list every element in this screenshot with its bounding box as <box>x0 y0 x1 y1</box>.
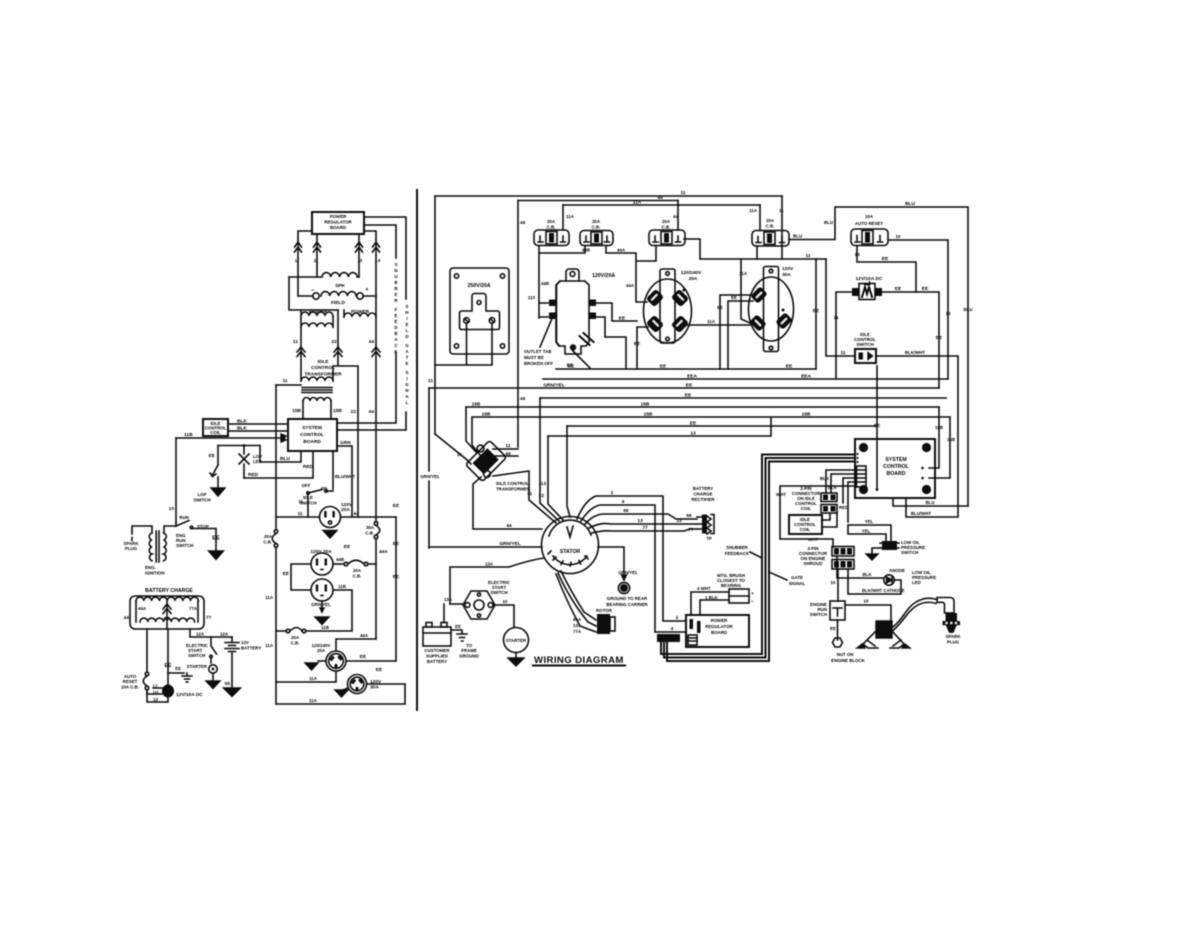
auto reset circuit breaker CB5 <box>121 672 149 690</box>
wire EE into SCB top <box>874 366 881 491</box>
svg-text:RED: RED <box>839 505 848 510</box>
svg-text:SWITCH: SWITCH <box>193 498 210 503</box>
svg-text:C.B.: C.B. <box>291 641 300 646</box>
svg-text:10A C.B.: 10A C.B. <box>121 685 139 690</box>
RIGHT-DIAGRAM <box>420 190 972 666</box>
svg-text:D: D <box>405 334 408 339</box>
wire GRN-YEL ground of J2 <box>311 601 331 625</box>
svg-text:13A: 13A <box>485 562 494 567</box>
svg-text:EE: EE <box>619 316 626 322</box>
svg-text:AUTO RESET: AUTO RESET <box>855 221 884 226</box>
svg-text:GROUND TO REAR: GROUND TO REAR <box>607 596 648 601</box>
svg-text:11B: 11B <box>321 625 329 630</box>
svg-text:66A: 66A <box>573 617 582 622</box>
svg-text:POWER: POWER <box>711 618 728 623</box>
svg-text:4: 4 <box>671 626 674 632</box>
svg-text:GRN/YEL: GRN/YEL <box>311 602 331 607</box>
svg-text:D: D <box>394 325 397 330</box>
idle control switch S5 <box>840 332 876 363</box>
svg-text:66: 66 <box>686 513 692 519</box>
wire 11 to receptacle J1 <box>276 511 320 517</box>
stator fan wire 4 <box>581 499 686 632</box>
svg-text:H: H <box>405 310 408 315</box>
svg-text:15B: 15B <box>802 412 811 418</box>
wire 11A bottom run <box>276 684 405 704</box>
svg-text:20A: 20A <box>592 219 601 224</box>
svg-text:BLU: BLU <box>793 234 802 239</box>
svg-text:20A: 20A <box>317 648 326 653</box>
svg-text:SPARK: SPARK <box>945 634 961 639</box>
wire EE right of J3 <box>346 654 396 661</box>
svg-text:11: 11 <box>298 499 303 504</box>
svg-text:10A: 10A <box>865 214 874 219</box>
svg-text:11: 11 <box>527 491 532 497</box>
svg-text:OUTLET TAB: OUTLET TAB <box>524 349 551 354</box>
wire 11 top run <box>435 190 782 196</box>
twist lock receptacle J3 120/240V <box>312 643 346 671</box>
wire to frame ground earth <box>168 666 192 682</box>
svg-text:44A: 44A <box>379 549 388 555</box>
wire 11 left drop <box>434 196 436 434</box>
svg-text:I: I <box>406 376 407 381</box>
LOP LED D5 <box>239 446 262 479</box>
svg-text:BATTERY: BATTERY <box>427 659 447 664</box>
svg-text:BATTERY: BATTERY <box>241 646 261 651</box>
wire labels 22 44 mid <box>351 409 375 415</box>
svg-text:B: B <box>394 286 397 291</box>
wire 11 drop to idle switch <box>826 259 855 356</box>
svg-text:13: 13 <box>676 518 682 524</box>
circuit breaker CB1 20A on left bus <box>263 385 278 704</box>
svg-text:COIL: COIL <box>801 506 812 511</box>
250V/20A receptacle plate <box>450 268 509 354</box>
svg-text:GRN/YEL: GRN/YEL <box>420 474 440 479</box>
wire BLU out of SCB <box>893 498 968 506</box>
svg-text:20A: 20A <box>766 218 775 223</box>
svg-text:SWITCH: SWITCH <box>188 653 205 658</box>
svg-text:10: 10 <box>503 599 508 604</box>
brush block <box>717 573 754 605</box>
svg-text:SWITCH: SWITCH <box>176 543 193 548</box>
wire 44 drop at 518 <box>518 201 526 448</box>
svg-text:11: 11 <box>805 253 810 259</box>
svg-text:MUST BE: MUST BE <box>524 355 544 360</box>
svg-text:C.B.: C.B. <box>365 531 374 536</box>
svg-text:IDLE CONTROL: IDLE CONTROL <box>496 481 529 486</box>
svg-text:GRN/YEL: GRN/YEL <box>499 541 520 547</box>
wire EE from 120/240V LL down <box>634 327 648 369</box>
svg-text:15B: 15B <box>292 408 301 414</box>
wire 11A bottom of J3 <box>276 671 336 682</box>
svg-text:11: 11 <box>680 190 685 196</box>
svg-text:L: L <box>406 328 409 333</box>
svg-text:11A: 11A <box>707 319 716 324</box>
system control board right <box>855 439 935 498</box>
svg-text:BOARD: BOARD <box>711 630 727 635</box>
wires YEL to oil switch <box>848 519 891 541</box>
stator fan wire 2 <box>577 490 686 621</box>
svg-text:BEARING CARRIER: BEARING CARRIER <box>606 602 648 607</box>
svg-text:44: 44 <box>657 195 663 201</box>
svg-text:EE: EE <box>813 308 820 314</box>
svg-text:EE: EE <box>165 663 172 669</box>
wire 10 from run switch right <box>845 599 891 621</box>
svg-text:BLU: BLU <box>905 201 915 207</box>
title WIRING DIAGRAM <box>533 655 625 666</box>
ground for J1 <box>323 531 337 539</box>
3 pin connector on engine shroud <box>799 546 854 569</box>
svg-text:PLUG: PLUG <box>125 546 138 551</box>
wire 44 from J1 <box>341 511 397 517</box>
wire GRN from board <box>337 440 352 517</box>
svg-text:11A: 11A <box>309 676 318 681</box>
svg-text:15B: 15B <box>641 402 650 408</box>
svg-text:13: 13 <box>153 697 158 702</box>
svg-text:20A: 20A <box>662 219 671 224</box>
svg-text:YEL: YEL <box>862 529 871 534</box>
svg-text:10: 10 <box>169 506 175 512</box>
wire 44A top of J3 <box>336 633 376 651</box>
svg-text:EE: EE <box>830 626 836 631</box>
ignition coil right <box>857 621 910 648</box>
wires 15B into SCB right <box>929 407 955 478</box>
snubber feedback shield <box>657 455 855 662</box>
svg-text:GRN/YEL: GRN/YEL <box>543 383 564 389</box>
svg-text:BLK: BLK <box>862 572 872 577</box>
svg-text:SHROUD: SHROUD <box>803 561 822 566</box>
svg-text:STARTER: STARTER <box>187 664 208 669</box>
vertical text SHIELD GATE SIGNAL <box>405 304 409 405</box>
svg-text:SWITCH: SWITCH <box>490 590 507 595</box>
svg-text:C.B.: C.B. <box>592 225 601 230</box>
battery BT1 12V <box>224 637 262 697</box>
divider line between schematic and wiring diagram <box>416 190 418 710</box>
svg-text:ENGINE BLOCK: ENGINE BLOCK <box>831 658 865 663</box>
svg-text:RUN: RUN <box>179 515 189 520</box>
svg-text:BEARING: BEARING <box>721 583 742 588</box>
svg-text:77: 77 <box>689 527 694 532</box>
svg-text:BOARD: BOARD <box>886 471 905 477</box>
wire 11 drop to 259 <box>781 196 783 259</box>
svg-text:44A: 44A <box>617 248 626 253</box>
svg-text:EE: EE <box>393 574 400 580</box>
svg-text:44A: 44A <box>626 283 635 288</box>
idle control transformer T1 label <box>304 359 342 378</box>
svg-text:120V/20A: 120V/20A <box>592 273 615 279</box>
svg-text:C.B.: C.B. <box>263 540 272 545</box>
wire EE from battery charge to motor <box>165 629 172 685</box>
svg-text:E: E <box>395 319 398 324</box>
wire BLK lower <box>228 426 288 432</box>
svg-text:(-): (-) <box>153 684 158 689</box>
power regulator board right <box>686 615 749 647</box>
frame ground for battery <box>451 624 479 659</box>
SPK winding L1 <box>289 273 359 289</box>
receptacle J1 120V 20A <box>320 502 354 528</box>
svg-text:44: 44 <box>520 220 526 226</box>
wire 11 from DC left down <box>833 292 852 379</box>
svg-text:EE: EE <box>175 666 181 671</box>
svg-text:120/240V: 120/240V <box>681 270 702 276</box>
idle control transformer T1 primary <box>301 377 333 381</box>
power regulator board U10 <box>312 212 364 234</box>
svg-text:BLU: BLU <box>824 220 833 225</box>
svg-text:44: 44 <box>520 396 526 402</box>
wire SPK left drop to power coils <box>289 277 338 310</box>
svg-text:C.B.: C.B. <box>662 225 671 230</box>
svg-text:OFF: OFF <box>302 483 311 488</box>
power winding right <box>344 296 376 522</box>
svg-text:GRN/YEL: GRN/YEL <box>618 570 638 575</box>
wire from board bottom-right to diode CR4 <box>364 231 376 240</box>
wire 44 top run <box>518 195 678 201</box>
battery charge rectifier CR5 <box>689 486 716 541</box>
svg-text:1 BLK: 1 BLK <box>705 595 719 600</box>
wire 11B duplex lower right <box>333 584 352 631</box>
svg-text:20A: 20A <box>291 635 300 640</box>
svg-text:11: 11 <box>282 378 287 384</box>
svg-text:EE: EE <box>209 453 216 459</box>
svg-text:TRANSFORMER: TRANSFORMER <box>304 372 342 378</box>
wire BLK/WHT from LED <box>848 569 901 594</box>
duplex receptacle J2 upper <box>311 553 333 575</box>
svg-text:EEA: EEA <box>687 374 697 380</box>
wire 11 diagonal to idle transformer <box>435 434 471 464</box>
svg-text:L: L <box>406 400 409 405</box>
svg-text:55: 55 <box>225 681 231 687</box>
svg-text:YEL: YEL <box>865 519 874 524</box>
spark plug symbol <box>123 526 152 551</box>
svg-text:30A: 30A <box>370 685 379 691</box>
svg-text:13: 13 <box>690 431 696 437</box>
svg-text:CONTROL: CONTROL <box>300 432 324 438</box>
svg-text:EE: EE <box>786 364 793 370</box>
wire EE from duplex bottom <box>567 351 590 369</box>
svg-text:30A: 30A <box>782 272 791 278</box>
svg-text:STARTER: STARTER <box>506 638 527 643</box>
svg-text:10: 10 <box>896 234 901 239</box>
wire 13A from stator to start switch <box>444 558 544 604</box>
svg-text:E: E <box>395 313 398 318</box>
svg-text:POWER: POWER <box>330 214 347 219</box>
engine run switch right <box>810 601 845 620</box>
wire 44 from transformer to stator <box>473 477 542 529</box>
svg-text:12V: 12V <box>241 640 249 645</box>
svg-text:SWITCH: SWITCH <box>856 342 873 347</box>
svg-text:22: 22 <box>539 493 545 499</box>
svg-text:SIGNAL: SIGNAL <box>789 581 806 586</box>
svg-text:250V/20A: 250V/20A <box>467 283 490 289</box>
svg-text:12V/10A DC: 12V/10A DC <box>176 692 203 698</box>
wire 11A top run <box>563 200 760 206</box>
idle control transformer T1 core <box>302 388 332 393</box>
wire from battery charge to auto reset breaker <box>146 629 148 672</box>
wire 10 to engine run switch <box>831 569 838 601</box>
idle switch S3 with BLU/WHT <box>298 451 355 517</box>
wire 10 from start switch to starter <box>493 599 514 627</box>
wire RED from LED to board <box>244 451 314 478</box>
wire EE drop at 816 <box>813 259 820 369</box>
svg-text:C.B.: C.B. <box>766 224 775 229</box>
svg-text:44B: 44B <box>541 281 549 286</box>
svg-text:13: 13 <box>541 481 547 487</box>
svg-text:11: 11 <box>505 443 510 449</box>
svg-text:SPK: SPK <box>335 283 345 289</box>
svg-text:BROKEN OFF: BROKEN OFF <box>524 361 553 366</box>
wire BLK to LED <box>837 556 884 578</box>
breaker B3 20A C.B. <box>649 201 685 246</box>
engine run switch S1 <box>176 515 209 548</box>
svg-text:20A: 20A <box>689 276 698 282</box>
breaker B4 20A C.B. <box>749 205 789 259</box>
svg-text:BATTERY: BATTERY <box>693 486 713 491</box>
svg-text:T: T <box>406 355 409 360</box>
svg-text:44: 44 <box>369 409 375 415</box>
wire 11 into primary <box>276 378 301 385</box>
wire 11A into 120V30A <box>741 259 750 323</box>
svg-text:10: 10 <box>864 599 869 604</box>
svg-text:20A: 20A <box>264 534 273 539</box>
diode CR1 <box>295 240 302 262</box>
breaker B2 20A C.B. <box>580 219 613 246</box>
svg-text:11: 11 <box>297 511 302 517</box>
svg-text:BLU: BLU <box>280 456 290 462</box>
idle control coil right <box>789 513 837 534</box>
svg-text:BLK: BLK <box>820 476 830 481</box>
harness wire GRN/YEL y388 <box>429 383 939 389</box>
note outlet tab must be broken off <box>524 316 553 366</box>
wire 11A from 120/240V to 120V30A <box>687 319 750 325</box>
wire labels 11 22 44 <box>293 339 374 345</box>
svg-text:2: 2 <box>611 490 614 496</box>
svg-text:11A: 11A <box>566 214 575 219</box>
svg-text:12A: 12A <box>196 632 205 637</box>
wires from 250V plate to 11 and 44 <box>435 323 492 365</box>
wire 15B left drops <box>466 407 480 455</box>
stator fan wire 13 <box>589 518 697 528</box>
svg-text:11: 11 <box>428 378 433 384</box>
ground for J3 <box>305 661 326 670</box>
svg-text:FEEDBACK: FEEDBACK <box>725 551 750 556</box>
svg-text:13: 13 <box>637 518 643 524</box>
svg-text:44: 44 <box>124 615 130 621</box>
svg-text:GROUND: GROUND <box>459 654 479 659</box>
svg-text:FRAME: FRAME <box>461 648 477 653</box>
duplex receptacle J2 lower <box>311 579 333 601</box>
svg-text:44: 44 <box>506 523 512 529</box>
svg-text:11A: 11A <box>309 698 318 703</box>
svg-text:12V/10A DC: 12V/10A DC <box>856 276 883 282</box>
svg-text:EE: EE <box>895 286 902 292</box>
harness wire 15B y417 <box>472 412 950 418</box>
svg-text:SNUBBER: SNUBBER <box>726 545 749 550</box>
svg-text:SYSTEM: SYSTEM <box>302 425 322 431</box>
low oil pressure switch <box>866 540 925 560</box>
wire 11A label on left bus <box>265 595 274 648</box>
chevron arrows on 11 22 44 <box>297 347 380 357</box>
harness wire EE y398 <box>540 393 946 399</box>
wire 13 bottom loop <box>147 690 168 702</box>
stator G1 <box>542 517 599 574</box>
svg-text:15B: 15B <box>482 412 491 418</box>
vertical text SNUBBER FEEDBACK <box>394 262 398 354</box>
svg-text:15B: 15B <box>644 412 653 418</box>
wire 13 from harness to stator <box>541 436 563 520</box>
120V 30A twist lock receptacle physical <box>739 266 794 352</box>
svg-text:11: 11 <box>840 350 845 356</box>
wire BLK upper <box>228 419 288 425</box>
wires SCB to connectors <box>826 470 857 522</box>
pin labels 1 2 3 4 <box>295 258 381 263</box>
spark plug right <box>937 598 961 645</box>
wire to DC motor <box>147 684 162 696</box>
svg-text:11A: 11A <box>265 595 274 600</box>
svg-text:BLK/WHT: BLK/WHT <box>905 350 926 355</box>
svg-text:EE: EE <box>393 503 400 509</box>
svg-text:EE: EE <box>717 305 723 310</box>
svg-text:LED: LED <box>912 580 921 585</box>
wire EE right of J4 <box>367 667 406 684</box>
wire BLK/WHT from idle switch <box>876 350 958 517</box>
120/240V twist lock receptacle physical <box>644 269 703 343</box>
wire from board bottom-left to diode CR1 <box>298 231 312 240</box>
svg-text:TRANSFORMER: TRANSFORMER <box>496 487 531 492</box>
wires EE from 120V30A UL <box>717 295 753 369</box>
svg-text:44: 44 <box>369 339 375 345</box>
svg-text:12A: 12A <box>220 632 229 637</box>
svg-text:GATE: GATE <box>791 575 803 580</box>
svg-text:EE: EE <box>731 295 737 300</box>
svg-text:G: G <box>405 343 409 348</box>
svg-text:N: N <box>394 268 397 273</box>
LOP switch S4 <box>193 465 218 503</box>
diode CR2 <box>314 234 321 262</box>
svg-text:BLK: BLK <box>237 426 247 432</box>
power winding left (two rows) <box>301 310 333 381</box>
wire node to LOP LED <box>218 445 260 447</box>
svg-text:13A: 13A <box>444 597 453 602</box>
svg-text:B: B <box>394 280 397 285</box>
svg-text:11B: 11B <box>338 584 346 589</box>
svg-text:S: S <box>406 370 409 375</box>
svg-text:LOP: LOP <box>197 492 206 497</box>
svg-text:EE: EE <box>283 571 290 577</box>
stator fan wire 66 <box>585 508 697 524</box>
svg-text:I: I <box>406 316 407 321</box>
wire loop from B5 left to 12V DC <box>854 246 916 292</box>
svg-text:4: 4 <box>622 499 625 505</box>
svg-text:CONTROL: CONTROL <box>311 365 335 371</box>
svg-text:BLU/WHT: BLU/WHT <box>335 474 356 479</box>
svg-text:PLUG: PLUG <box>947 640 960 645</box>
svg-text:IDLE: IDLE <box>318 359 330 365</box>
wire 11B into board with arrows <box>176 432 286 442</box>
wire EE from duplex right screws <box>596 303 637 369</box>
svg-text:22: 22 <box>331 339 337 345</box>
svg-text:C.B.: C.B. <box>353 574 362 579</box>
wire 44B from B1 to duplex <box>539 246 590 318</box>
wire 22 from harness to stator <box>539 398 559 521</box>
svg-text:15B: 15B <box>472 402 481 408</box>
wire 11 横 run at 259 <box>684 239 826 259</box>
rotor connector <box>556 571 615 634</box>
svg-text:BOARD: BOARD <box>330 225 346 230</box>
svg-text:BLU: BLU <box>963 307 972 312</box>
svg-text:SUPPLIED: SUPPLIED <box>426 654 448 659</box>
secondary labels 15B 15B <box>292 408 342 414</box>
svg-text:COIL: COIL <box>800 527 811 532</box>
svg-text:13A: 13A <box>573 623 582 628</box>
